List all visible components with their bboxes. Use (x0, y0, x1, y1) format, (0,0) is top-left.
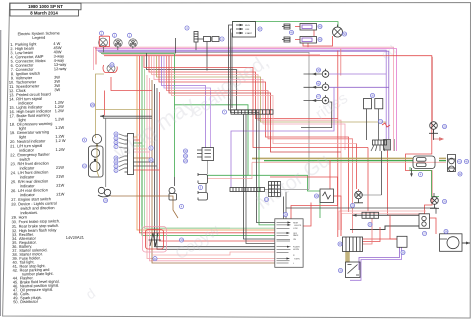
svg-text:23.: 23. (10, 161, 16, 166)
arrowhead ind2 (312, 86, 316, 89)
label circle 4 (418, 172, 422, 176)
rear connector pair (413, 156, 435, 169)
connector 6 fan wires (119, 134, 125, 171)
label circle 31 (183, 154, 187, 158)
title text (28, 4, 63, 16)
wire olive cross link (96, 109, 153, 111)
wire black pcb link (265, 190, 382, 196)
lamp 23 red wire wrap (103, 65, 117, 73)
wire rear lamp 26 stub (433, 193, 435, 197)
tail light bulb 41 (449, 158, 455, 164)
wire relay red top (329, 160, 331, 189)
alternator 34 pink wrap (143, 227, 167, 253)
wire violet battery down 2 (350, 248, 402, 281)
label circle 28 (283, 212, 287, 216)
svg-text:1.2W: 1.2W (55, 116, 65, 121)
wire black horn arrow 2 (103, 117, 152, 119)
label circle 9 (82, 138, 86, 142)
rectifier 33 (343, 237, 363, 252)
battery 36 box (397, 236, 407, 247)
wire gray 4way drop (207, 161, 209, 175)
sender comb fan (371, 145, 385, 151)
wire brown horn run (111, 196, 179, 218)
wire black battery main (353, 214, 420, 216)
svg-text:1.2W: 1.2W (55, 147, 65, 152)
svg-text:1.2W: 1.2W (55, 108, 65, 113)
connector pair 4 AMP (204, 37, 220, 42)
wire band violet to rear 1 (97, 50, 387, 139)
wire connector pair drop (206, 42, 208, 71)
wire green frame loop branch (175, 105, 321, 191)
arrowheads stop switch (240, 24, 243, 34)
arrowhead motor out (466, 242, 470, 245)
lamp 3 low beam (114, 39, 122, 47)
svg-text:21.: 21. (10, 143, 16, 148)
connector 7 strip 12way (231, 110, 273, 114)
wire instrument trunk green (134, 56, 275, 235)
svg-text:1.2W: 1.2W (55, 125, 65, 130)
device 28 box (275, 219, 303, 267)
label circle 2 (99, 31, 103, 35)
svg-text:21W: 21W (56, 174, 64, 179)
wire staircase salmon 9 (172, 56, 357, 144)
label circle 4 (220, 37, 224, 41)
wire staircase violet 7a (162, 56, 206, 148)
wire band magenta (95, 49, 397, 151)
rear brake zigzag (382, 123, 390, 127)
alternator 34 windings (149, 233, 162, 246)
wire rear lamp 25b stub (433, 130, 435, 140)
wire staircase violet 7b (164, 56, 211, 148)
wire black solenoid to motor (350, 226, 419, 230)
wire tan tail harness (252, 157, 446, 159)
alternator green stub (141, 170, 143, 227)
left scan edge (0, 30, 2, 316)
wire rear red second (432, 57, 443, 141)
wire instrument trunk red (134, 56, 275, 233)
starter motor 38 (440, 234, 463, 252)
svg-text:START: START (245, 32, 253, 35)
lamp 1 parking light (129, 39, 137, 47)
wire black pcb to device 2 (285, 192, 287, 219)
label circle 41 (457, 159, 461, 163)
wire green tail drop to rear lamp (410, 167, 439, 197)
arrowhead horn 1 (100, 115, 104, 118)
wire staircase red 9 (169, 56, 341, 152)
coil 48a inner (302, 25, 312, 29)
legend text block (8, 30, 85, 304)
label circle 5 (198, 185, 202, 189)
svg-text:42.: 42. (13, 268, 19, 273)
label circle 32 (314, 194, 318, 198)
connector 5 lower brackets (198, 173, 208, 200)
wire red rectifier fan 1 (363, 238, 398, 240)
svg-text:TURN: TURN (294, 258, 300, 260)
wire relay red right (334, 196, 342, 236)
wire red rectifier fan 3 (363, 219, 373, 245)
wire black sender drop 2 (378, 109, 380, 140)
engine stop switch arrows (236, 25, 243, 33)
starter solenoid 37 (419, 214, 430, 229)
svg-text:14.: 14. (9, 96, 15, 101)
svg-text:3W: 3W (54, 87, 60, 92)
gauge cluster frame (89, 146, 104, 177)
wire red relay wrap (270, 177, 338, 219)
wire red solenoid right hook (430, 218, 437, 234)
wire black top connector vertical (175, 38, 177, 54)
rear lamp 25 num stub (354, 199, 363, 203)
label circle 7 (222, 110, 226, 114)
gauge tachometer (91, 149, 99, 157)
engine stop switch 27 box (233, 22, 256, 38)
wire red coil top link 2 (295, 39, 300, 41)
rear lamp 26 ground (430, 204, 439, 208)
wire band gray to pcb (100, 52, 310, 189)
label circle 37 (422, 231, 426, 235)
rear comb connector (384, 140, 391, 151)
tail light bracket (448, 155, 456, 172)
wire salmon through connector (252, 161, 446, 163)
spark plug 49b (282, 37, 290, 42)
wire black vertical 245 (246, 115, 275, 244)
label circle 29 (103, 198, 107, 202)
indicator lamp b (322, 82, 329, 91)
rear lamp 25b top (429, 122, 438, 134)
wire red left turnlamp feed (95, 47, 97, 65)
svg-text:22.: 22. (10, 152, 16, 157)
wire staircase brown 8 (167, 56, 353, 233)
label circle 20 (114, 164, 118, 168)
label circle 42 (458, 172, 462, 176)
wire staircase black 1 (147, 53, 237, 110)
wire staircase tan 5 (157, 56, 387, 122)
wire black pcb to device 1 (283, 197, 285, 219)
label circle 31 (378, 119, 382, 123)
device 28 labels (293, 222, 302, 265)
svg-text:28.: 28. (11, 201, 17, 206)
wire instrument trunk black a (134, 84, 275, 247)
label circle 38 (444, 229, 448, 233)
label circle 13 (264, 197, 268, 201)
pcb connector strip (230, 188, 265, 192)
label circle 23 (110, 63, 114, 67)
svg-text:LIGHTS: LIGHTS (294, 225, 302, 227)
label circle 11 (82, 164, 86, 168)
svg-text:Legend: Legend (32, 35, 45, 40)
wire band green to frame loop (101, 53, 175, 55)
wire green frame loop vertical (174, 54, 176, 178)
wire gray rear short (394, 139, 396, 151)
wire instrument trunk pink (134, 78, 275, 261)
label circle 12 (149, 158, 153, 162)
svg-text:17.: 17. (9, 113, 15, 118)
label circle 44 (179, 238, 183, 242)
wire salmon fuse box loop (339, 211, 426, 230)
wire red vertical 356 (356, 144, 358, 190)
svg-text:8 March 2014: 8 March 2014 (30, 11, 58, 16)
label circle 25 (350, 203, 354, 207)
distributor 50 (333, 25, 343, 38)
indicator lamp a (322, 69, 329, 78)
label circle 29 (90, 103, 94, 107)
wire staircase red 10 (144, 56, 368, 148)
wire engine stop switch black 1 (229, 25, 275, 223)
svg-text:LOW: LOW (293, 228, 298, 230)
wire olive gauge feed (96, 74, 105, 138)
coil 48b inner (302, 38, 312, 42)
wire staircase salmon 3 (152, 56, 342, 236)
wire red drop 104 (104, 91, 106, 116)
connector 5 molex 4way (197, 148, 214, 161)
arrowhead ind1 (312, 73, 316, 76)
label circle 14 (114, 132, 118, 136)
label circle 39 (368, 222, 372, 226)
svg-text:21W: 21W (56, 191, 64, 196)
gauge voltmeter (92, 134, 101, 143)
label circle 50 (342, 32, 346, 36)
wire red battery top (390, 215, 397, 239)
wire lamp2 drop (117, 46, 119, 50)
wire top plug drop (195, 42, 197, 50)
wire band salmon (103, 54, 321, 56)
label circle 4 (185, 26, 189, 30)
connector 6 comb 13way (125, 134, 134, 175)
wire connector pair stub (197, 38, 204, 40)
svg-text:1.2 W: 1.2 W (55, 138, 66, 143)
wire instrument trunk black b (134, 88, 275, 249)
lamp 2 high beam (99, 38, 108, 47)
label circle 48 (318, 24, 322, 28)
svg-text:21W: 21W (56, 183, 64, 188)
ground arrowhead (410, 173, 413, 177)
wire olive regulator band (345, 252, 350, 263)
wire band pink headlight to rear (94, 47, 394, 151)
label circle 18 (114, 156, 118, 160)
wire purple lamp row1 to rear (329, 73, 386, 75)
wire band red to rear (104, 56, 432, 214)
svg-text:FLASH: FLASH (293, 246, 300, 249)
wire purple battery down (359, 248, 400, 271)
arrowhead ind3 (312, 99, 316, 102)
wire red coil top link (295, 26, 300, 28)
relay 32 box (320, 189, 334, 203)
wire red coil vertical drop 2 (313, 30, 315, 36)
wire green engine stop to distributor (232, 22, 338, 28)
wire red coil bottom to distributor (303, 36, 333, 46)
svg-text:25.: 25. (11, 179, 17, 184)
wire lamp1 drop (103, 47, 105, 53)
wire instrument trunk brown (134, 80, 275, 263)
svg-text:18.: 18. (10, 122, 16, 127)
regulator 35 (346, 262, 361, 278)
svg-text:HORN: HORN (293, 249, 299, 251)
brake switch 30 box (364, 99, 372, 109)
pcb 13 grid (269, 182, 281, 197)
svg-text:21W: 21W (56, 165, 64, 170)
wire purple drop to pcb (231, 87, 334, 187)
frame bullet connector (169, 188, 177, 201)
svg-text:OFF: OFF (245, 29, 250, 31)
wire red vertical 340 (340, 49, 342, 76)
wire green to connector 5 (208, 174, 249, 176)
engine stop switch labels (245, 25, 253, 35)
rear lamp 25 (355, 191, 363, 199)
svg-text:RUN: RUN (245, 25, 250, 27)
wire engine stop switch black 3 (231, 33, 234, 108)
svg-text:26.: 26. (11, 188, 17, 193)
spark plug 49a (282, 24, 290, 29)
coil 48b (300, 37, 317, 44)
label circle 17 (114, 145, 118, 149)
label circle 30 (370, 93, 374, 97)
wire instrument trunk red b (134, 92, 275, 241)
wire staircase pink 4 (154, 56, 345, 150)
label circle 30 (183, 149, 187, 153)
wire black frame drop (174, 177, 176, 186)
label circle 47 (316, 94, 320, 98)
fuse holder 39 (362, 212, 379, 218)
tail light bulb 40 (449, 166, 455, 172)
wire device box red right (303, 203, 311, 227)
svg-text:14V20A21: 14V20A21 (66, 235, 84, 240)
label circle 49 (289, 30, 293, 34)
coil 48a (300, 24, 317, 31)
headlight shell red outline (99, 36, 109, 46)
wire black sender drop 1 (366, 109, 368, 140)
alternator 34 red wrap (146, 230, 164, 250)
label circle 19 (114, 160, 118, 164)
wire indicator lamp arrow 3 (304, 100, 323, 102)
label circle 6 (149, 146, 153, 150)
title box row 1 (10, 3, 81, 10)
wire gray horn drop (105, 118, 107, 187)
rear lamp 26 (431, 197, 439, 205)
wire lamp3 drop (132, 46, 134, 49)
label circle 48 (318, 37, 322, 41)
label circle 45 (316, 68, 320, 72)
gauge speedometer (90, 162, 100, 172)
wire instrument trunk orange (134, 56, 275, 230)
wire red coil vertical drop 1 (307, 43, 309, 47)
wire instrument trunk ltgreen (134, 69, 275, 228)
wire salmon bottom device loop (152, 252, 275, 255)
wire ltgreen bottom device (160, 227, 230, 229)
wire staircase red 2 (149, 56, 338, 119)
label circle 16 (114, 140, 118, 144)
wire green tail harness thick (264, 160, 446, 162)
wire green rear down (319, 194, 321, 219)
svg-text:1980 1000 SP NT: 1980 1000 SP NT (28, 4, 63, 9)
wire salmon to connector 5 (208, 162, 253, 178)
wire purple lamp row2 to rear (329, 86, 389, 88)
svg-text:Distributor: Distributor (20, 299, 39, 304)
label circle 4 (179, 204, 183, 208)
top plug component (194, 32, 198, 43)
wire black motor out arrow (462, 242, 470, 244)
label circle 22 (183, 159, 187, 163)
olive gauge link (97, 144, 99, 177)
label circle 1 (127, 33, 131, 37)
label circle 15 (114, 136, 118, 140)
wire salmon fuse box loop 2 (342, 214, 425, 231)
device 28 arrowheads (287, 221, 291, 259)
wire rear red down to solenoid (388, 151, 420, 216)
horn 29 (98, 187, 111, 197)
label circle 26 (442, 199, 446, 203)
sender comb (373, 140, 387, 145)
wire black long 208 (286, 208, 436, 214)
brake switch 31 box (375, 99, 383, 109)
wire black vertical 243 (244, 115, 275, 240)
label circle 3 (112, 33, 116, 37)
label circle 25 (442, 124, 446, 128)
wire black horn arrow 1 (100, 115, 152, 117)
svg-text:24.: 24. (11, 170, 17, 175)
wire black sender comb down (381, 151, 383, 195)
wire rear lamp left drop (358, 189, 360, 191)
watermark (83, 42, 399, 303)
label circle 40 (464, 159, 468, 163)
wire indicator lamp arrow 1 (304, 73, 323, 75)
svg-text:PARK: PARK (293, 234, 299, 237)
wire indicator lamp arrow 2 (304, 86, 323, 88)
wire staircase olive 6 (159, 56, 349, 212)
gauge needle dots (96, 144, 98, 146)
wire red vertical 337 long (337, 51, 339, 237)
wire red vertical 368 (367, 148, 369, 212)
wire red rectifier fan 2 (363, 227, 381, 242)
label circle 36 (401, 250, 405, 254)
wire band violet to rear 2 (98, 51, 389, 139)
label circle 33 (338, 242, 342, 246)
wire green device feed (259, 150, 275, 225)
label circle 34 (153, 257, 157, 261)
label circle 46 (316, 81, 320, 85)
label circle 35 (338, 268, 342, 272)
wire indicator lamp3 return (301, 102, 332, 128)
svg-text:19.: 19. (10, 130, 16, 135)
lamp 23 RH front direction indicator (107, 65, 115, 73)
title box row 2 (10, 10, 79, 16)
ground arrow rear connector (411, 168, 413, 174)
wire instrument trunk salmon (134, 75, 275, 259)
svg-text:12-way: 12-way (54, 66, 67, 71)
svg-text:50.: 50. (13, 299, 19, 304)
wire red turnlamp right (111, 77, 152, 91)
label circle 21 (114, 168, 118, 172)
arrow battery main (353, 214, 357, 217)
indicator lamp c (322, 95, 329, 104)
device 28 arrows (277, 223, 291, 264)
wire engine stop switch black 2 (231, 29, 260, 150)
label circle 27 (258, 27, 262, 31)
